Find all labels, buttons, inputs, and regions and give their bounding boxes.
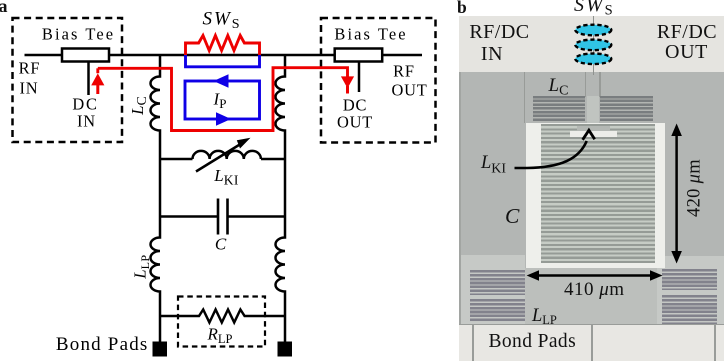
- panel label a: [0, 0, 8, 17]
- blue switch bracket under SWS: [186, 55, 260, 67]
- svg-text:Bias Tee: Bias Tee: [334, 25, 407, 44]
- dimension arrow 420um vertical: [675, 132, 678, 254]
- capacitor interdigitated fingers (photo): [541, 124, 655, 263]
- bias tee U2 (right) body: [335, 49, 383, 62]
- inductor LC meander right (photo): [600, 96, 653, 122]
- bias tee U1 (left) body: [62, 49, 109, 62]
- wire: DC IN stem: [87, 62, 90, 96]
- white patch under LKI tab: [570, 131, 617, 137]
- wire: main top wire: [107, 54, 336, 57]
- photo: left edge line: [459, 72, 461, 324]
- bond pad sliver left: [459, 325, 472, 361]
- red arrow DC OUT (pointing down): [341, 76, 354, 88]
- switch SWS cyan ellipse 1: [575, 25, 611, 36]
- bond pad right (black square): [278, 342, 293, 357]
- inductor LKI rung wire: [160, 158, 285, 161]
- resistor SWS (red) with leads: [186, 36, 260, 56]
- label Bond Pads (photo): [489, 331, 577, 353]
- svg-text:Bond Pads: Bond Pads: [56, 334, 149, 355]
- label 420 um rotated: [684, 159, 705, 217]
- label LC (photo): [549, 75, 569, 100]
- wire: RF IN stub: [25, 54, 65, 57]
- label LKI (photo): [481, 153, 506, 178]
- dashed box around RLP: [178, 297, 265, 347]
- capacitor C plates: [217, 199, 220, 235]
- switch SWS cyan ellipse 2: [575, 40, 611, 51]
- wire: left rail with inductor LC and inductor LLP coils: [151, 55, 161, 343]
- svg-text:C: C: [215, 235, 227, 254]
- svg-text:IN: IN: [77, 112, 96, 131]
- red wire: DC bias loop: [98, 68, 348, 131]
- blue arrow left (top of IP loop): [214, 74, 229, 88]
- bond pad 3: [716, 325, 724, 361]
- svg-text:LKI: LKI: [213, 166, 239, 188]
- blue arrow right (bottom of IP loop): [216, 112, 231, 126]
- label RF/DC OUT: [647, 21, 724, 44]
- dashed box: left Bias Tee enclosure: [13, 18, 123, 142]
- label RF/DC IN: [459, 21, 540, 44]
- capacitor body frame (photo): [526, 123, 665, 268]
- photo: center feed line: [593, 16, 595, 75]
- photo: light channel column between LC meanders: [587, 96, 600, 126]
- blue persistent-current loop IP: [185, 81, 260, 119]
- label C (photo): [505, 204, 519, 229]
- arrow across LKI (variable inductor): [196, 143, 243, 172]
- svg-text:OUT: OUT: [391, 81, 427, 100]
- svg-text:RF: RF: [19, 59, 41, 78]
- svg-text:OUT: OUT: [337, 113, 373, 132]
- label LLP (photo): [532, 306, 557, 328]
- panel label b: [457, 0, 467, 18]
- bond pad left (black square): [153, 342, 168, 357]
- svg-text:IP: IP: [213, 90, 227, 112]
- photo: lighter lower-right region: [657, 256, 724, 324]
- resistor RLP rung with zigzag: [160, 310, 285, 323]
- switch SWS cyan ellipse 3: [575, 54, 611, 65]
- LKI pointer arrowhead: [583, 130, 595, 140]
- svg-text:RF: RF: [393, 62, 415, 81]
- micrograph photo backdrop: [459, 16, 724, 361]
- photo: lighter lower-left region: [459, 255, 525, 324]
- photo: channel trace left: [585, 72, 586, 97]
- wire: right rail with inductor LC and inductor LLP coils: [276, 55, 286, 344]
- label SWS (panel b): [574, 0, 615, 20]
- label 410 um: [564, 279, 625, 301]
- svg-text:RLP: RLP: [207, 325, 233, 347]
- red arrow DC IN (pointing up): [96, 68, 99, 73]
- dashed box: right Bias Tee enclosure: [321, 18, 436, 143]
- svg-text:IN: IN: [20, 79, 39, 98]
- svg-text:Bias Tee: Bias Tee: [42, 25, 115, 44]
- photo: lighter lower-center region: [525, 268, 657, 324]
- bond pad 1 (Bond Pads box): [474, 325, 592, 361]
- inductor LKI coil: [193, 151, 261, 159]
- bond pad 2: [593, 325, 714, 361]
- inductor LLP meander left upper (photo): [470, 270, 525, 295]
- photo: channel trace right: [599, 72, 600, 97]
- photo: top metal strip: [459, 16, 724, 72]
- wire: RF OUT stub: [381, 54, 422, 57]
- LKI pointer leader and curve: [515, 141, 587, 168]
- svg-text:LLP: LLP: [131, 254, 152, 279]
- inductor LLP meander left lower (photo): [470, 299, 525, 322]
- inductor LLP meander right upper (photo): [662, 269, 717, 291]
- capacitor C rung wires: [160, 215, 285, 218]
- svg-text:LC: LC: [128, 96, 150, 116]
- svg-text:SWS: SWS: [202, 9, 241, 32]
- inductor LLP meander right lower (photo): [662, 295, 717, 324]
- dimension arrow 410um horizontal: [530, 274, 659, 277]
- LKI nanowire tab (photo): [577, 126, 610, 132]
- wire: DC OUT stem: [358, 62, 361, 93]
- bond pad strip (photo): [459, 324, 724, 361]
- photo: left boundary trace: [524, 72, 525, 124]
- inductor LC meander left (photo): [533, 96, 585, 122]
